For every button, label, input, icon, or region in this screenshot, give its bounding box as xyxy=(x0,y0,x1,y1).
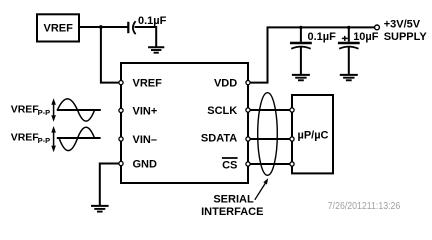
svg-text:7/26/201211:13:26: 7/26/201211:13:26 xyxy=(328,201,401,212)
supply rail xyxy=(267,26,375,28)
pin circle SCLK xyxy=(246,108,250,112)
pin circle GND xyxy=(119,161,123,165)
wire VREF box to capacitor C1 xyxy=(79,26,128,28)
svg-text:INTERFACE: INTERFACE xyxy=(201,206,263,218)
wire SDATA to uP xyxy=(248,138,292,140)
SERIAL INTERFACE label xyxy=(201,193,263,218)
svg-text:VREF: VREF xyxy=(133,78,163,90)
pin circle VDD xyxy=(246,81,250,85)
svg-text:VREF: VREF xyxy=(11,131,40,143)
sine source VIN+ xyxy=(11,98,101,122)
svg-text:µP/µC: µP/µC xyxy=(297,129,328,141)
svg-text:10µF: 10µF xyxy=(353,31,379,43)
supply terminal circle xyxy=(375,25,380,30)
svg-text:VIN–: VIN– xyxy=(133,134,157,146)
wire GND pin to ground xyxy=(100,163,121,206)
svg-text:SERIAL: SERIAL xyxy=(213,193,254,205)
ADC U1 box xyxy=(121,63,248,183)
pin circle uP SDATA xyxy=(290,137,294,141)
junction node at VREF rail xyxy=(99,25,103,29)
wire VDD to supply rail xyxy=(248,27,268,82)
svg-text:P-P: P-P xyxy=(38,108,51,117)
+3V/5V SUPPLY label xyxy=(384,19,428,44)
svg-text:0.1µF: 0.1µF xyxy=(138,15,167,27)
svg-text:P-P: P-P xyxy=(38,136,51,145)
pin circle uP CS xyxy=(290,162,294,166)
wire C1 to ground xyxy=(135,26,157,47)
svg-text:VREF: VREF xyxy=(11,104,40,116)
pin circle VIN- xyxy=(119,137,123,141)
junction node C3 at rail xyxy=(347,26,350,29)
VREF source box xyxy=(37,14,79,41)
pin label CS with overline xyxy=(222,158,238,172)
capacitor C1 0.1uF (VREF bypass) xyxy=(128,15,166,34)
arrow from label to ellipse xyxy=(255,178,268,200)
ground (GND pin) xyxy=(91,206,109,212)
svg-text:CS: CS xyxy=(222,160,237,172)
svg-text:VREF: VREF xyxy=(44,22,74,34)
capacitor C3 10uF (supply bulk) xyxy=(338,27,379,74)
sine source VIN- xyxy=(11,126,101,152)
svg-text:GND: GND xyxy=(133,159,158,171)
wire junction to VREF pin xyxy=(101,27,121,83)
ground (C3) xyxy=(340,75,358,80)
svg-text:+3V/5V: +3V/5V xyxy=(384,19,421,31)
wire CS to uP xyxy=(248,163,292,165)
pin circle VREF xyxy=(119,81,123,85)
wire SCLK to uP xyxy=(248,109,292,111)
ground (VREF bypass) xyxy=(148,47,164,53)
svg-text:SDATA: SDATA xyxy=(201,132,237,144)
svg-text:VDD: VDD xyxy=(214,77,237,89)
junction node C2 at rail xyxy=(299,26,302,29)
ground (C2) xyxy=(292,75,310,80)
pin circle CS xyxy=(246,162,250,166)
pin circle uP SCLK xyxy=(290,108,294,112)
svg-text:SUPPLY: SUPPLY xyxy=(384,31,428,43)
svg-text:SCLK: SCLK xyxy=(207,105,237,117)
svg-text:VIN+: VIN+ xyxy=(133,105,158,117)
pin circle SDATA xyxy=(246,137,250,141)
svg-text:0.1µF: 0.1µF xyxy=(308,31,337,43)
capacitor C2 0.1uF (supply bypass) xyxy=(290,27,336,74)
microcontroller uP/uC box xyxy=(292,95,333,173)
serial interface ellipse xyxy=(258,93,278,176)
pin circle VIN+ xyxy=(119,108,123,112)
